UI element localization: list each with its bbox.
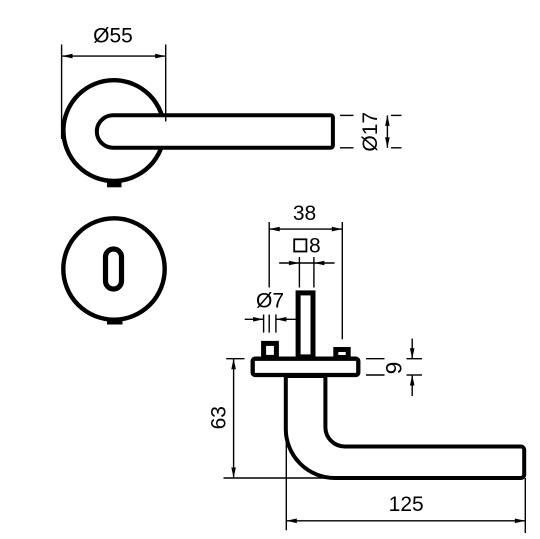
dimension square-8 line [279,262,335,264]
dimension 125 left arrowhead [286,519,297,524]
dimension 63 top arrowhead (points up) [231,359,236,370]
side view: rose plate [253,359,359,375]
dimension 9 line lower part [411,375,413,396]
dimension Ø17 top extension line segments [340,114,354,116]
dimension 63 top extension line [226,358,244,360]
dimension 63 line [233,359,235,478]
svg-text:125: 125 [389,493,424,516]
dimension 125 line [286,520,525,522]
dimension Ø55 left arrowhead [62,54,73,59]
side view: square spindle [298,293,313,357]
svg-text:Ø17: Ø17 [359,112,382,152]
dimension 125 right extension line [524,478,526,533]
dimension square-8 right arrowhead (points left) [314,261,325,266]
dimension 9 top extension line segments [366,358,385,360]
dimension square-8 left extension line [298,257,300,288]
dimension Ø17 line [386,115,388,147]
keyhole slot [106,249,122,289]
dimension square-8 left arrowhead (points right) [289,261,300,266]
svg-text:63: 63 [207,406,230,429]
dimension Ø55 line [62,55,166,57]
dimension 9 bottom extension line segments [366,374,385,376]
dimension 38 line [269,228,342,230]
dimension 125 right arrowhead [515,519,526,524]
dimension 38 right arrowhead [332,227,343,232]
dimension square-8 symbol [294,239,306,251]
dimension Ø7 right arrowhead (points left) [276,317,287,322]
svg-text:Ø55: Ø55 [93,25,133,48]
svg-text:Ø7: Ø7 [256,290,284,313]
dimension Ø7 left arrowhead (points right) [253,317,264,322]
dimension square-8 right extension line [313,257,315,288]
escutcheon circle (keyhole rose) [63,218,164,319]
dimension 38 left arrowhead [269,227,280,232]
dimension 125 left extension line [285,430,287,530]
dimension Ø7 line right tail [276,318,296,320]
lever handle front view (white filled over rose) [97,115,333,147]
dimension Ø17 top arrowhead [385,115,390,126]
dimension Ø7 line left tail [245,318,264,320]
dimension 38 left extension line (lower part, centre tick) [268,315,270,333]
svg-text:9: 9 [381,362,406,375]
rose circle (front view) [63,80,164,181]
dimension 63 bottom extension line [224,477,337,479]
dimension 38 right extension line [341,222,343,339]
dimension Ø55 right arrowhead [155,54,166,59]
dimension Ø55 left extension line [61,45,63,140]
dimension 38 left extension line (upper part) [268,222,270,288]
svg-text:38: 38 [293,202,316,225]
dimension 9 line upper part [411,339,413,359]
dimension Ø7 right tick [275,315,277,333]
dimension Ø17 bottom extension line segments [340,147,354,149]
side view: left screw post [264,343,277,357]
dimension Ø7 left tick [263,315,265,333]
svg-text:8: 8 [309,234,321,257]
dimension 9 lower arrowhead (points up) [410,375,415,386]
dimension 63 bottom arrowhead (points down) [231,468,236,479]
side view: lever handle (drawn first, plate overlaps) [286,376,524,478]
dimension Ø55 right extension line [165,45,167,122]
side view: right screw post [336,350,348,358]
rose bottom tab (front view) [107,181,122,187]
dimension Ø17 bottom arrowhead [385,137,390,148]
dimension 9 upper arrowhead (points down) [410,348,415,359]
escutcheon bottom tab [107,318,123,325]
